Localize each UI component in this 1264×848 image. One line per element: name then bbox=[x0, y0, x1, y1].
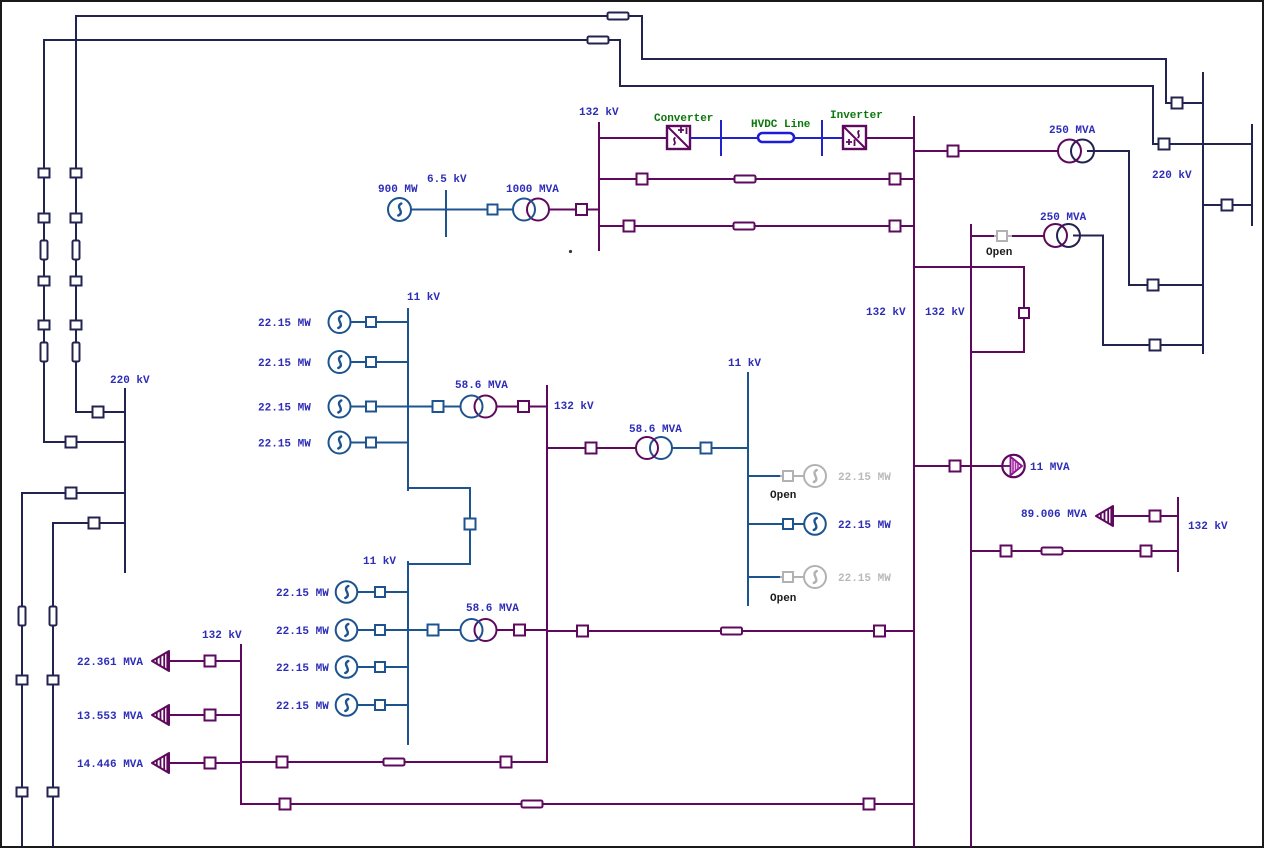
wire GA4 lead bbox=[351, 442, 409, 444]
bus 132kV D bbox=[1177, 497, 1179, 572]
wire 132kV circuit 1 bbox=[599, 178, 914, 180]
bus 220kV right stub bbox=[1251, 124, 1253, 226]
wire feeder V3 to 220kV bus bbox=[22, 492, 125, 494]
breaker TX3h bbox=[576, 204, 587, 215]
breaker C2a bbox=[624, 221, 635, 232]
motor M1 bbox=[1002, 455, 1024, 477]
breaker V3c bbox=[17, 788, 28, 797]
wire A-C link top bbox=[408, 487, 470, 489]
wire GC1 lead bbox=[357, 591, 408, 593]
wire trunk loop bottom bbox=[971, 351, 1024, 353]
line symbol TDc bbox=[1042, 548, 1063, 555]
svg-text:22.15 MW: 22.15 MW bbox=[276, 663, 329, 675]
wire A-C link bottom bbox=[408, 563, 470, 565]
generator GA1 bbox=[329, 311, 351, 333]
wire trunk loop side bbox=[1023, 266, 1025, 353]
breaker V2e bbox=[66, 437, 77, 448]
breaker V1b bbox=[71, 214, 82, 223]
wire TX5 hv lead bbox=[496, 629, 548, 631]
transformer TX3 1000MVA bbox=[513, 199, 549, 221]
line symbol C1 bbox=[735, 176, 756, 183]
wire TX2 lv lead bbox=[971, 235, 994, 237]
svg-text:900 MW: 900 MW bbox=[378, 184, 418, 196]
transformer TX1 250MVA bbox=[1058, 140, 1094, 163]
breaker BT1 bbox=[577, 626, 588, 637]
svg-text:250 MVA: 250 MVA bbox=[1049, 125, 1096, 137]
load L4 bbox=[1096, 506, 1113, 526]
breaker TC2 bbox=[514, 625, 525, 636]
breaker TD1b bbox=[1001, 546, 1012, 557]
wire 220kV line A top bbox=[76, 15, 643, 17]
bus dc node 2 bbox=[821, 120, 823, 156]
wire dc lead 4 bbox=[822, 137, 844, 139]
svg-text:22.15 MW: 22.15 MW bbox=[276, 588, 329, 600]
wire 132kV B to trunk bbox=[548, 630, 914, 632]
wire rectifier ac lead bbox=[599, 137, 668, 139]
generator GD1 open bbox=[804, 465, 826, 487]
wire trunk loop top bbox=[914, 266, 1024, 268]
svg-text:Open: Open bbox=[770, 490, 796, 502]
transformer TX6 58.6MVA bbox=[636, 437, 672, 459]
wire busC tx lead bbox=[408, 629, 461, 631]
svg-text:58.6 MVA: 58.6 MVA bbox=[455, 380, 508, 392]
svg-text:6.5 kV: 6.5 kV bbox=[427, 174, 467, 186]
breaker TD2 bbox=[701, 443, 712, 454]
breaker V2d bbox=[39, 321, 50, 330]
wire TX2 open stub bbox=[994, 235, 1013, 237]
svg-text:22.15 MW: 22.15 MW bbox=[258, 403, 311, 415]
breaker ACb bbox=[465, 519, 476, 530]
svg-text:132 kV: 132 kV bbox=[1188, 521, 1228, 533]
wire GD3 stub bbox=[780, 576, 805, 578]
wire 220kV line B drop bbox=[619, 39, 621, 87]
breaker B1 bbox=[1159, 139, 1170, 150]
breaker TA1 bbox=[433, 401, 444, 412]
wire 220kV line A to bus bbox=[1165, 102, 1203, 104]
load L2 bbox=[152, 705, 169, 725]
wire inverter ac lead bbox=[865, 137, 915, 139]
wire 220kV line A drop 2 bbox=[1165, 58, 1167, 104]
transformer TX4 58.6MVA bbox=[461, 396, 497, 418]
generator GC4 bbox=[336, 694, 358, 716]
generator GC1 bbox=[336, 581, 358, 603]
breaker C1b bbox=[890, 174, 901, 185]
svg-text:1000 MVA: 1000 MVA bbox=[506, 184, 559, 196]
wire motor lead bbox=[914, 465, 1003, 467]
wire GD1 stub bbox=[780, 475, 805, 477]
wire GA3 lead bbox=[351, 406, 409, 408]
breaker V1a bbox=[71, 169, 82, 178]
bus 220kV right main bbox=[1202, 72, 1204, 354]
bus 132kV HVDC rectifier bbox=[598, 122, 600, 251]
transformer TX2 250MVA bbox=[1044, 224, 1080, 247]
wire 132kV circuit 2 bbox=[599, 225, 914, 227]
wire feeder V4 bbox=[52, 522, 54, 846]
wire TX1 hv to bus bbox=[1128, 284, 1203, 286]
line symbol C2 bbox=[734, 223, 755, 230]
breaker V3b bbox=[17, 676, 28, 685]
wire 132kV trunk east bbox=[970, 224, 972, 847]
breaker TD2b bbox=[1141, 546, 1152, 557]
wire GD3 lead bbox=[748, 576, 780, 578]
wire dc lead 3 bbox=[793, 137, 823, 139]
breaker TD1 bbox=[586, 443, 597, 454]
svg-text:132 kV: 132 kV bbox=[202, 630, 242, 642]
breaker GC4b bbox=[375, 700, 385, 710]
breaker V2c bbox=[39, 277, 50, 286]
bus 132kV B bbox=[546, 385, 548, 763]
breaker GD3b bbox=[783, 572, 793, 582]
wire busB tx lead bbox=[547, 447, 637, 449]
svg-text:Open: Open bbox=[770, 593, 796, 605]
generator GA4 bbox=[329, 432, 351, 454]
wire 132kV trunk west bbox=[913, 116, 915, 847]
wire L2 lead bbox=[169, 714, 241, 716]
svg-text:132 kV: 132 kV bbox=[866, 307, 906, 319]
wire TX1 hv lead bbox=[1087, 150, 1130, 152]
breaker C1a bbox=[637, 174, 648, 185]
svg-text:132 kV: 132 kV bbox=[925, 307, 965, 319]
svg-text:22.15 MW: 22.15 MW bbox=[838, 472, 891, 484]
generator GC3 bbox=[336, 656, 358, 678]
breaker LT2 bbox=[864, 799, 875, 810]
wire TX6 lv lead bbox=[671, 447, 748, 449]
wire GD2 lead bbox=[748, 523, 805, 525]
series reactor V1r2 bbox=[73, 343, 80, 362]
line symbol LA bbox=[608, 13, 629, 20]
svg-text:58.6 MVA: 58.6 MVA bbox=[466, 603, 519, 615]
svg-text:11 kV: 11 kV bbox=[363, 556, 396, 568]
breaker T1 bbox=[1222, 200, 1233, 211]
svg-text:58.6 MVA: 58.6 MVA bbox=[629, 424, 682, 436]
load L1 bbox=[152, 651, 169, 671]
node dot bbox=[569, 250, 572, 253]
svg-text:13.553 MVA: 13.553 MVA bbox=[77, 711, 143, 723]
svg-text:220 kV: 220 kV bbox=[1152, 170, 1192, 182]
generator G900 bbox=[388, 198, 411, 221]
wire A-C link drop bbox=[469, 487, 471, 565]
bus 11kV D bbox=[747, 372, 749, 606]
wire GA2 lead bbox=[351, 361, 409, 363]
breaker C2b bbox=[890, 221, 901, 232]
svg-text:22.15 MW: 22.15 MW bbox=[258, 358, 311, 370]
series reactor V1r1 bbox=[73, 241, 80, 260]
wire TX1 lv lead bbox=[914, 150, 1059, 152]
breaker GC3b bbox=[375, 662, 385, 672]
wire dc lead 2 bbox=[721, 137, 759, 139]
bus 11kV A bbox=[407, 308, 409, 491]
line symbol LTc bbox=[522, 801, 543, 808]
breaker TX1b bbox=[948, 146, 959, 157]
breaker A1 bbox=[1172, 98, 1183, 109]
wire TX4 hv lead bbox=[496, 406, 548, 408]
breaker TX2h bbox=[1150, 340, 1161, 351]
line symbol BT bbox=[721, 628, 742, 635]
breaker V3a bbox=[66, 488, 77, 499]
wire TX2 lv lead 2 bbox=[1012, 235, 1045, 237]
wire 220kV line B across bbox=[619, 85, 1154, 87]
generator GA3 bbox=[329, 396, 351, 418]
converter CONV1 bbox=[667, 126, 690, 149]
wire 220kV line A drop bbox=[641, 15, 643, 60]
wire busA tx lead bbox=[408, 406, 461, 408]
generator GA2 bbox=[329, 351, 351, 373]
breaker V1d bbox=[71, 321, 82, 330]
inverter INV1 bbox=[843, 126, 866, 149]
wire loadbus to 132kV B bbox=[241, 761, 547, 763]
svg-text:Converter: Converter bbox=[654, 113, 713, 125]
bus 6.5 kV bbox=[445, 190, 447, 237]
svg-text:22.361 MVA: 22.361 MVA bbox=[77, 657, 143, 669]
transformer TX5 58.6MVA bbox=[461, 619, 497, 641]
breaker TA2 bbox=[518, 401, 529, 412]
breaker GA1b bbox=[366, 317, 376, 327]
wire L1 lead bbox=[169, 660, 241, 662]
svg-text:22.15 MW: 22.15 MW bbox=[258, 439, 311, 451]
wire feeder V1 to 220kV bus bbox=[75, 411, 125, 413]
svg-text:Inverter: Inverter bbox=[830, 110, 883, 122]
line symbol LB bbox=[588, 37, 609, 44]
wire TX1 hv drop bbox=[1128, 150, 1130, 286]
svg-text:132 kV: 132 kV bbox=[579, 107, 619, 119]
wire G900 lead bbox=[411, 209, 446, 211]
wire 220kV line B to bus bbox=[1152, 143, 1252, 145]
breaker LP1 bbox=[1019, 308, 1029, 318]
wire GC3 lead bbox=[357, 666, 408, 668]
breaker L4b bbox=[1150, 511, 1161, 522]
wire L4 lead bbox=[1113, 515, 1178, 517]
breaker G900b bbox=[488, 205, 498, 215]
svg-text:14.446 MVA: 14.446 MVA bbox=[77, 759, 143, 771]
breaker LB2 bbox=[501, 757, 512, 768]
breaker LT1 bbox=[280, 799, 291, 810]
breaker TC1 bbox=[428, 625, 439, 636]
svg-text:22.15 MW: 22.15 MW bbox=[276, 701, 329, 713]
generator GD2 bbox=[804, 513, 826, 535]
breaker V4c bbox=[48, 788, 59, 797]
svg-text:22.15 MW: 22.15 MW bbox=[838, 520, 891, 532]
wire TX2 hv lead bbox=[1073, 235, 1104, 237]
breaker V1e bbox=[93, 407, 104, 418]
breaker BT2 bbox=[874, 626, 885, 637]
breaker GA4b bbox=[366, 438, 376, 448]
breaker GC2b bbox=[375, 625, 385, 635]
wire feeder V1 bbox=[75, 15, 77, 413]
breaker TX2 open bbox=[997, 231, 1007, 241]
load L3 bbox=[152, 753, 169, 773]
wire TX3 hv lead bbox=[549, 209, 599, 211]
breaker V2b bbox=[39, 214, 50, 223]
breaker V1c bbox=[71, 277, 82, 286]
svg-text:132 kV: 132 kV bbox=[554, 401, 594, 413]
breaker L1b bbox=[205, 656, 216, 667]
svg-text:Open: Open bbox=[986, 247, 1012, 259]
series reactor V2r1 bbox=[41, 241, 48, 260]
breaker V4a bbox=[89, 518, 100, 529]
breaker LB1 bbox=[277, 757, 288, 768]
wire feeder V4 to 220kV bus bbox=[53, 522, 125, 524]
wire TX2 hv drop bbox=[1102, 235, 1104, 346]
wire feeder V2 bbox=[43, 39, 45, 443]
breaker GC1b bbox=[375, 587, 385, 597]
wire 220kV line B drop 2 bbox=[1152, 85, 1154, 145]
wire GC4 lead bbox=[357, 704, 408, 706]
wire feeder V2 to 220kV bus bbox=[43, 441, 125, 443]
breaker GD2b bbox=[783, 519, 793, 529]
bus dc node 1 bbox=[720, 120, 722, 156]
wire dc lead 1 bbox=[690, 137, 722, 139]
bus 220kV left bbox=[124, 388, 126, 573]
svg-text:220 kV: 220 kV bbox=[110, 375, 150, 387]
wire 220kV line A across bbox=[641, 58, 1167, 60]
svg-text:22.15 MW: 22.15 MW bbox=[276, 626, 329, 638]
series reactor V4r1 bbox=[50, 607, 57, 626]
svg-text:11 MVA: 11 MVA bbox=[1030, 462, 1070, 474]
breaker GA2b bbox=[366, 357, 376, 367]
breaker GA3b bbox=[366, 402, 376, 412]
breaker M1b bbox=[950, 461, 961, 472]
wire G900 lead 2 bbox=[446, 209, 512, 211]
svg-text:89.006 MVA: 89.006 MVA bbox=[1021, 509, 1087, 521]
line symbol LBc bbox=[384, 759, 405, 766]
wire 220kV line B top bbox=[44, 39, 621, 41]
bus 132kV load bus bbox=[240, 644, 242, 805]
generator GD3 open bbox=[804, 566, 826, 588]
breaker TX1h bbox=[1148, 280, 1159, 291]
series reactor V3r1 bbox=[19, 607, 26, 626]
wire L3 lead bbox=[169, 762, 241, 764]
wire GA1 lead bbox=[351, 321, 409, 323]
wire bus tie bbox=[1204, 204, 1251, 206]
svg-text:HVDC Line: HVDC Line bbox=[751, 119, 811, 131]
generator GC2 bbox=[336, 619, 358, 641]
bus 11kV C bbox=[407, 561, 409, 745]
svg-text:11 kV: 11 kV bbox=[728, 358, 761, 370]
svg-text:11 kV: 11 kV bbox=[407, 292, 440, 304]
breaker GD1b bbox=[783, 471, 793, 481]
breaker L3b bbox=[205, 758, 216, 769]
svg-text:22.15 MW: 22.15 MW bbox=[838, 573, 891, 585]
HVDC line symbol bbox=[758, 133, 794, 142]
wire loadbus to trunk bbox=[241, 803, 914, 805]
series reactor V2r2 bbox=[41, 343, 48, 362]
wire TX2 hv to bus bbox=[1102, 344, 1203, 346]
breaker V2a bbox=[39, 169, 50, 178]
breaker V4b bbox=[48, 676, 59, 685]
breaker L2b bbox=[205, 710, 216, 721]
wire GD1 lead bbox=[748, 475, 780, 477]
wire GC2 lead bbox=[357, 629, 408, 631]
svg-text:250 MVA: 250 MVA bbox=[1040, 212, 1087, 224]
wire trunk to 132kV D bbox=[971, 550, 1178, 552]
svg-text:22.15 MW: 22.15 MW bbox=[258, 318, 311, 330]
wire feeder V3 bbox=[21, 492, 23, 846]
